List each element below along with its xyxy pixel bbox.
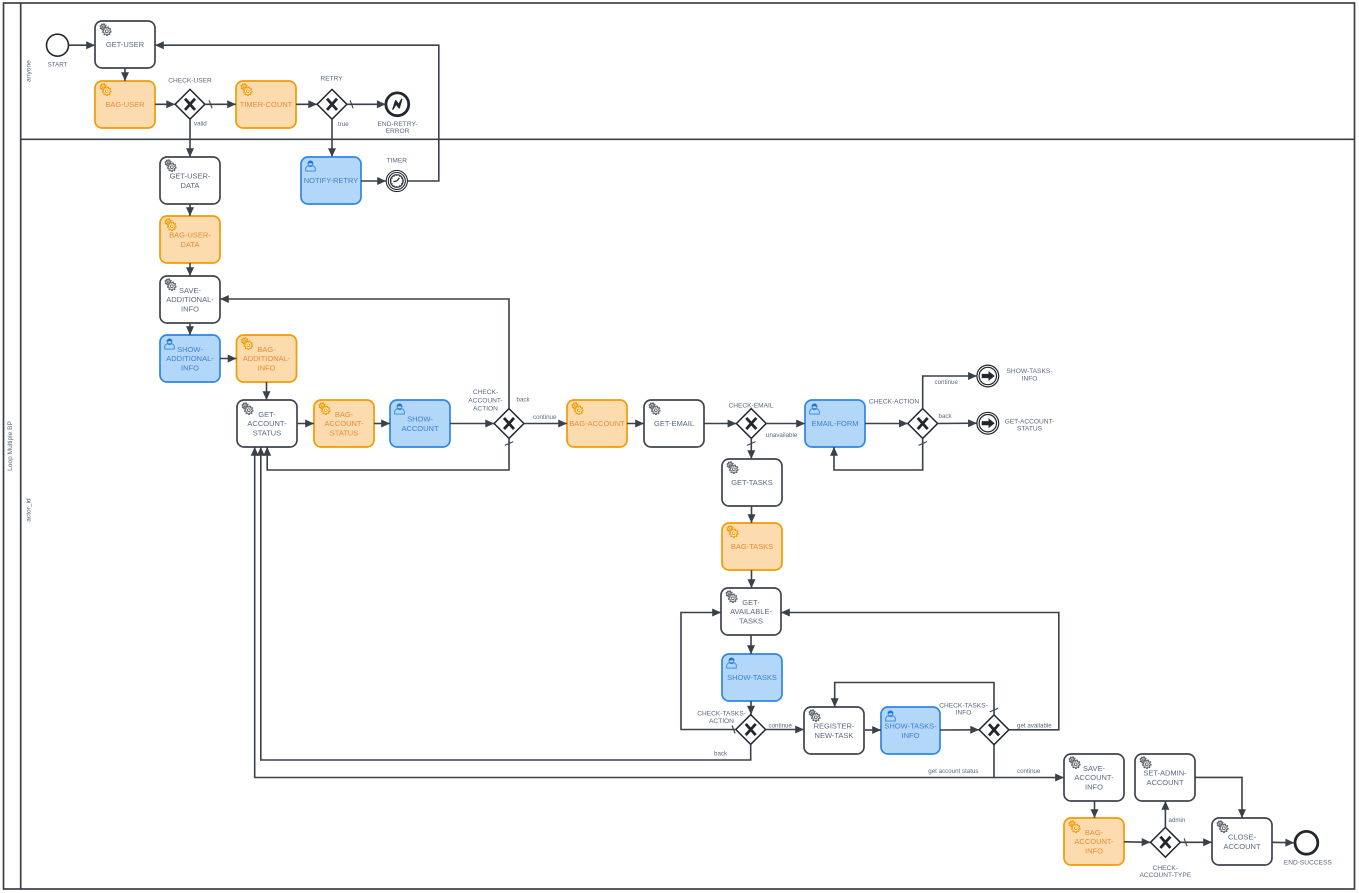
svg-text:ACCOUNT-: ACCOUNT-: [247, 419, 287, 428]
svg-text:TIMER-COUNT: TIMER-COUNT: [240, 100, 293, 109]
svg-text:GET-: GET-: [742, 598, 760, 607]
svg-text:CHECK-EMAIL: CHECK-EMAIL: [728, 402, 773, 409]
svg-text:START: START: [48, 62, 68, 69]
svg-text:CHECK-TASKS-: CHECK-TASKS-: [697, 710, 746, 717]
svg-text:anyone: anyone: [26, 60, 33, 82]
svg-text:GET-ACCOUNT-: GET-ACCOUNT-: [1005, 418, 1055, 425]
svg-text:ACCOUNT-: ACCOUNT-: [468, 397, 502, 404]
svg-text:ACCOUNT: ACCOUNT: [1146, 778, 1184, 787]
svg-text:ADDITIONAL-: ADDITIONAL-: [243, 354, 291, 363]
svg-text:GET-: GET-: [258, 410, 276, 419]
svg-text:CHECK-: CHECK-: [1153, 865, 1178, 872]
svg-text:Loop Multiple BP: Loop Multiple BP: [7, 420, 14, 470]
svg-text:TASKS: TASKS: [739, 617, 763, 626]
svg-text:ACCOUNT-: ACCOUNT-: [1074, 773, 1114, 782]
svg-text:ACTION: ACTION: [473, 406, 498, 413]
svg-text:back: back: [714, 751, 728, 758]
svg-text:SAVE-: SAVE-: [1083, 764, 1105, 773]
svg-text:ERROR: ERROR: [386, 128, 410, 135]
svg-text:back: back: [517, 397, 531, 404]
svg-text:CLOSE-: CLOSE-: [1228, 833, 1256, 842]
svg-text:INFO: INFO: [1085, 847, 1103, 856]
svg-text:ADDITIONAL-: ADDITIONAL-: [166, 295, 214, 304]
svg-text:NOTIFY-RETRY: NOTIFY-RETRY: [304, 176, 359, 185]
svg-text:CHECK-ACTION: CHECK-ACTION: [869, 398, 919, 405]
svg-text:STATUS: STATUS: [330, 429, 358, 438]
svg-text:SAVE-: SAVE-: [179, 286, 201, 295]
svg-text:ACCOUNT-: ACCOUNT-: [1074, 837, 1114, 846]
svg-text:CHECK-TASKS-: CHECK-TASKS-: [939, 702, 988, 709]
svg-text:GET-EMAIL: GET-EMAIL: [654, 419, 694, 428]
svg-text:admin: admin: [1169, 817, 1186, 824]
svg-text:INFO: INFO: [181, 305, 199, 314]
svg-text:SET-ADMIN-: SET-ADMIN-: [1143, 769, 1187, 778]
svg-text:REGISTER-: REGISTER-: [814, 722, 855, 731]
svg-text:END-RETRY-: END-RETRY-: [378, 121, 418, 128]
svg-text:BAG-: BAG-: [257, 345, 276, 354]
svg-text:ADDITIONAL-: ADDITIONAL-: [166, 354, 214, 363]
svg-text:ACCOUNT-TYPE: ACCOUNT-TYPE: [1139, 872, 1191, 879]
svg-text:BAG-USER-: BAG-USER-: [169, 231, 211, 240]
svg-text:INFO: INFO: [1085, 783, 1103, 792]
svg-text:BAG-: BAG-: [1085, 828, 1104, 837]
svg-text:DATA: DATA: [181, 181, 200, 190]
svg-text:INFO: INFO: [181, 364, 199, 373]
svg-text:ACCOUNT: ACCOUNT: [401, 424, 439, 433]
svg-text:continue: continue: [935, 379, 959, 386]
svg-text:actor_id: actor_id: [26, 498, 33, 522]
svg-text:GET-USER-: GET-USER-: [170, 172, 211, 181]
svg-text:STATUS: STATUS: [253, 429, 281, 438]
svg-text:INFO: INFO: [1022, 376, 1038, 383]
svg-text:INFO: INFO: [258, 364, 276, 373]
svg-text:GET-USER: GET-USER: [106, 40, 145, 49]
svg-text:END-SUCCESS: END-SUCCESS: [1284, 860, 1333, 867]
svg-text:SHOW-TASKS: SHOW-TASKS: [727, 673, 777, 682]
svg-text:continue: continue: [1017, 768, 1041, 775]
svg-text:BAG-TASKS: BAG-TASKS: [731, 542, 773, 551]
svg-text:CHECK-: CHECK-: [473, 389, 498, 396]
svg-text:SHOW-TASKS-: SHOW-TASKS-: [884, 722, 937, 731]
svg-text:SHOW-TASKS-: SHOW-TASKS-: [1007, 368, 1053, 375]
svg-text:INFO: INFO: [902, 731, 920, 740]
svg-text:INFO: INFO: [956, 709, 972, 716]
svg-text:back: back: [939, 413, 953, 420]
svg-text:GET-TASKS: GET-TASKS: [731, 478, 773, 487]
svg-text:BAG-: BAG-: [335, 410, 354, 419]
svg-text:valid: valid: [194, 121, 207, 128]
svg-text:TIMER: TIMER: [387, 158, 408, 165]
svg-text:continue: continue: [533, 414, 557, 421]
svg-text:true: true: [338, 121, 349, 128]
svg-text:BAG-ACCOUNT: BAG-ACCOUNT: [569, 419, 625, 428]
svg-text:CHECK-USER: CHECK-USER: [168, 78, 212, 85]
svg-text:ACTION: ACTION: [709, 718, 734, 725]
svg-text:unavailable: unavailable: [766, 432, 798, 439]
svg-text:get available: get available: [1017, 722, 1052, 729]
svg-text:RETRY: RETRY: [320, 76, 343, 83]
svg-text:get account status: get account status: [928, 768, 978, 775]
svg-text:SHOW-: SHOW-: [177, 345, 203, 354]
svg-text:SHOW-: SHOW-: [407, 415, 433, 424]
svg-text:BAG-USER: BAG-USER: [105, 100, 145, 109]
svg-text:continue: continue: [769, 723, 793, 730]
svg-text:EMAIL-FORM: EMAIL-FORM: [811, 419, 858, 428]
svg-text:STATUS: STATUS: [1017, 426, 1043, 433]
svg-text:DATA: DATA: [181, 240, 200, 249]
svg-text:ACCOUNT: ACCOUNT: [1223, 842, 1261, 851]
svg-text:AVAILABLE-: AVAILABLE-: [730, 607, 772, 616]
svg-text:ACCOUNT-: ACCOUNT-: [324, 419, 364, 428]
svg-text:NEW-TASK: NEW-TASK: [815, 731, 854, 740]
